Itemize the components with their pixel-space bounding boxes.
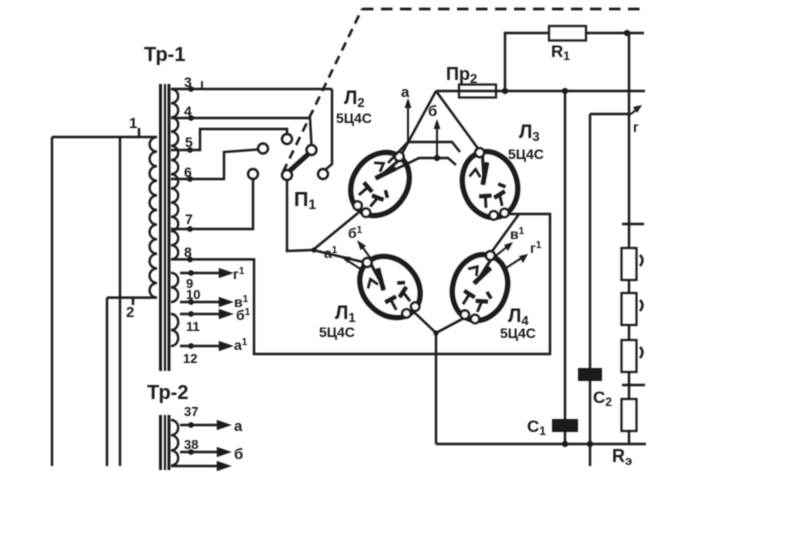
svg-text:C1: C1 [527, 417, 546, 438]
wire common contact to left bridge vertex [287, 180, 313, 251]
svg-text:4: 4 [184, 103, 192, 119]
tap 4 wire [171, 115, 312, 145]
capacitor C1 [552, 419, 578, 432]
wire g branch [590, 105, 642, 114]
tap 10 wire with arrow [180, 299, 230, 306]
bridge: wire bottom vertex to L4 [436, 317, 466, 333]
bridge: wire L2 to left vertex [313, 213, 358, 250]
wire right vertical x590 [589, 114, 591, 466]
bridge: wire top vertex to tube L2 [399, 91, 436, 159]
arrow g1 (L4 heater) [506, 254, 528, 268]
svg-text:R1: R1 [551, 42, 570, 63]
wire right chain vertical [628, 33, 630, 248]
svg-text:Л2: Л2 [344, 88, 365, 110]
node 2 [126, 298, 134, 321]
tap 7 wire [171, 179, 253, 232]
bridge: bottom vertex down wire [435, 333, 437, 444]
tube L1 [344, 241, 434, 332]
resistor chain box 2 [622, 293, 637, 325]
svg-text:10: 10 [186, 287, 200, 302]
tap 38 wire with arrow [180, 449, 228, 456]
tube L4 [443, 243, 517, 330]
svg-text:37: 37 [184, 404, 198, 419]
resistor chain box 3 [622, 340, 637, 372]
node left vertex [311, 247, 316, 252]
tap 3 wire [171, 81, 332, 92]
node 1 [129, 115, 139, 137]
svg-text:а: а [401, 84, 410, 101]
svg-text:5Ц4С: 5Ц4С [319, 324, 355, 340]
Tr-1 heater winding 11-12 [171, 314, 178, 346]
switch P1 contact 6 [258, 144, 268, 154]
dashed gang line (diagonal) [283, 9, 362, 172]
wire terminal 1 [52, 136, 157, 138]
wire left vertical b [119, 137, 121, 466]
node at 505,91 [502, 88, 508, 94]
svg-text:в1: в1 [510, 226, 525, 242]
svg-text:C2: C2 [593, 388, 612, 409]
svg-text:5Ц4С: 5Ц4С [508, 146, 544, 162]
svg-text:38: 38 [184, 437, 198, 452]
bridge: wire top vertex to tube L3 [436, 91, 482, 154]
bridge: wire L4 to right vertex [488, 214, 519, 257]
resistor chain box 1 [622, 248, 637, 280]
transformer Tr-2 core [161, 415, 170, 470]
bottom bus wire [436, 443, 646, 445]
wire box4 bottom [628, 431, 630, 444]
bridge: wire L3 to right vertex [499, 213, 519, 215]
svg-text:8: 8 [184, 244, 192, 260]
fuse Pr2 [459, 85, 496, 98]
Tr-1 heater winding 9-10 [171, 273, 178, 302]
svg-text:г: г [633, 119, 639, 135]
svg-text:11: 11 [186, 319, 200, 334]
tap 12 wire with arrow [180, 343, 230, 350]
mark right of box1 [640, 255, 643, 266]
svg-text:б: б [234, 446, 243, 463]
arrow a [405, 98, 412, 142]
svg-text:г1: г1 [233, 266, 245, 282]
switch P1 contact 3 [318, 169, 328, 179]
Tr-1 primary winding [150, 137, 157, 298]
bridge: wire left vertex to L1 [313, 250, 367, 263]
tap 9 wire with arrow [180, 270, 230, 277]
svg-text:Rэ: Rэ [612, 446, 632, 468]
svg-text:5Ц4С: 5Ц4С [500, 325, 536, 341]
tap 5 wire [171, 129, 287, 153]
arrow b1 (L1 heater) [357, 240, 371, 259]
svg-text:Л1: Л1 [335, 303, 356, 325]
switch P1 lever [289, 153, 310, 172]
node bottom vertex [433, 330, 438, 335]
dashed gang line (horizontal top) [362, 8, 645, 11]
bridge: wire L1 to bottom vertex [414, 312, 436, 333]
wire contact3 to tap3 corner [326, 89, 333, 170]
wire box1-box2 [628, 280, 630, 293]
wire left vertical c [106, 298, 108, 466]
node heater b [434, 155, 440, 161]
svg-text:Л3: Л3 [519, 122, 540, 144]
svg-text:Тр-2: Тр-2 [147, 382, 188, 404]
wire box3-box4 [628, 372, 630, 399]
wire right vertical x565 [564, 91, 566, 444]
svg-text:5: 5 [185, 134, 193, 150]
capacitor C2 [578, 368, 602, 381]
tube L3 [453, 140, 527, 227]
switch P1 contact 7 [248, 169, 258, 179]
svg-text:6: 6 [184, 164, 192, 180]
svg-text:а1: а1 [234, 337, 248, 353]
svg-text:12: 12 [183, 351, 197, 366]
svg-text:б1: б1 [348, 225, 363, 241]
wire terminal 2 [107, 296, 157, 298]
arrow b [434, 119, 441, 158]
svg-text:а1: а1 [324, 245, 338, 261]
svg-text:3: 3 [184, 74, 192, 90]
svg-text:2: 2 [126, 304, 134, 321]
svg-text:П1: П1 [294, 189, 316, 212]
Tr-1 secondary winding 3-8 [171, 89, 178, 259]
svg-text:Пр2: Пр2 [446, 64, 477, 86]
resistor chain box 4 [622, 399, 637, 431]
svg-text:7: 7 [185, 211, 193, 227]
svg-text:г1: г1 [530, 240, 542, 256]
tap 37 wire with arrow [180, 422, 228, 429]
svg-text:1: 1 [129, 115, 137, 132]
wire left vertical a [51, 137, 53, 466]
node at 565,91 [562, 88, 568, 94]
tap 8 wire (routes around bridge to right vertex) [171, 214, 550, 354]
mark right of box3 [640, 347, 643, 358]
switch P1 contact 4 (lever top) [307, 145, 317, 155]
node at 627,33 [624, 30, 630, 36]
tap 39 stub wire [171, 463, 228, 470]
arrow v1 (L4 heater) [493, 242, 513, 258]
heater wire b (inner) [386, 158, 456, 174]
tube L2 [337, 137, 423, 228]
wire box2-box3 [628, 325, 630, 340]
wire R1 branch left [505, 33, 549, 91]
mark right of box2 [640, 300, 643, 311]
transformer Tr-1 core [161, 84, 170, 371]
switch P1 contact common [282, 170, 292, 180]
svg-text:Тр-1: Тр-1 [144, 44, 185, 66]
tick mid chain [622, 384, 645, 386]
resistor R1 [549, 26, 586, 41]
heater wire a (inner) [388, 142, 460, 163]
tap 11 wire with arrow [180, 311, 230, 318]
svg-text:б: б [428, 103, 437, 120]
wire R1 right [586, 32, 644, 34]
Tr-2 winding [171, 420, 178, 466]
tap 6 wire [171, 150, 258, 182]
svg-text:а: а [234, 418, 243, 435]
tick top of chain [622, 223, 644, 225]
switch P1 contact 5 [282, 134, 292, 144]
node C1 bottom [562, 441, 568, 447]
main line from bridge top through fuse [436, 90, 645, 92]
svg-text:5Ц4С: 5Ц4С [336, 110, 372, 126]
node C2 bottom [587, 441, 593, 447]
svg-text:б1: б1 [236, 307, 251, 323]
arrow a1 (L1 heater) [340, 256, 362, 270]
